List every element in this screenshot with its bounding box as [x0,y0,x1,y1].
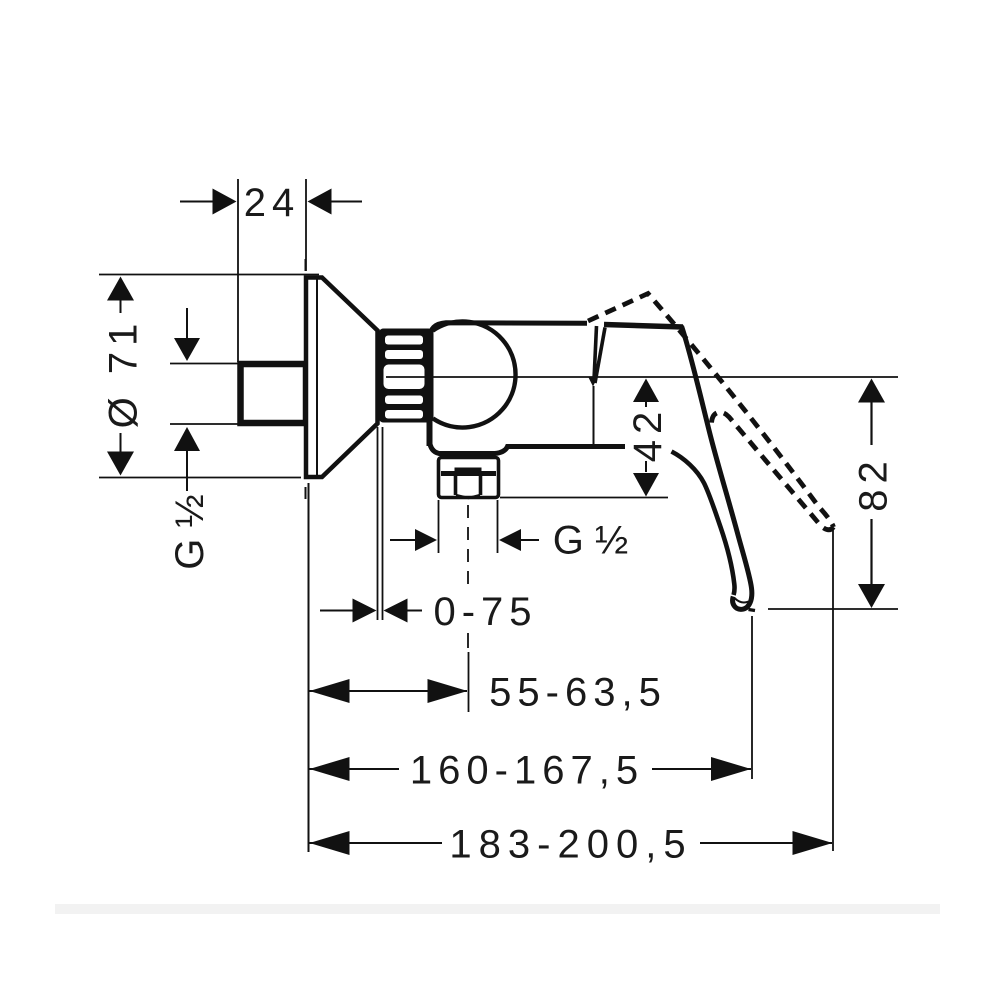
valve body left edge [427,330,433,446]
outlet nut bump [455,468,482,474]
dim Ø71: bottom extension line [99,477,301,479]
dim Ø71: arrows and shaft [107,277,134,301]
dim 160-167,5: extension line right (lever tip) [751,616,753,779]
lever outer edge [682,326,752,609]
skirt tip arrowhead [589,378,598,387]
outlet nut left facet [454,474,458,495]
dim Ø71: top extension line [99,274,319,276]
svg-text:183-200,5: 183-200,5 [449,823,692,867]
faint scan band [55,904,940,914]
centerline through nut [386,376,433,378]
dim 183-200,5: line + arrows [310,831,350,855]
svg-text:0-75: 0-75 [433,590,537,634]
stub top extension line [170,363,240,365]
dim 42: down arrow [645,461,647,472]
svg-text:82: 82 [852,455,896,512]
dim 183-200,5: extension line right (dashed tip) [832,530,834,851]
dim G1/2 stub: lower arrow [174,427,200,451]
svg-text:55-63,5: 55-63,5 [489,671,667,715]
svg-text:42: 42 [626,406,670,463]
escutcheon cone [306,278,378,478]
outlet G1/2 dim: line + arrows [390,539,415,541]
stub bottom extension line [170,423,240,425]
knurled nut [379,329,434,423]
handle skirt left edge (double line V) [594,326,597,380]
dim 160-167,5: line + arrows [310,757,350,781]
lever tip highlight [735,599,749,603]
left long extension line [308,483,310,852]
outlet nut band [441,471,496,476]
dim G1/2 stub: upper arrow [186,308,188,339]
lever inner edge [672,452,735,596]
svg-text:24: 24 [244,181,301,225]
outlet centerline dash-dot [467,505,469,590]
dim 24: extension line left [237,179,239,362]
svg-text:160-167,5: 160-167,5 [410,749,644,793]
lever tip nub [749,610,756,611]
outlet nut right facet [479,474,483,495]
dim 82: down arrow [870,519,872,584]
dim 42: up arrow [633,379,659,403]
dim 82: bottom reference line [768,608,898,610]
line under body arm (42 reference) [500,497,668,499]
wall plane dash bottom [305,487,307,499]
cartridge dome circle [433,322,516,428]
dim 0-75: double extension lines [377,427,379,620]
dashed raised lever lower edge [711,412,833,530]
svg-text:Ø 71: Ø 71 [102,318,146,429]
handle skirt top edge [604,325,683,328]
svg-text:G ½: G ½ [553,519,629,563]
wall stub (supply connection) [241,364,307,423]
main horizontal centerline [386,376,898,378]
wall plane dash top [305,259,307,271]
dashed raised lever upper edge [588,294,834,528]
dim 55-63,5: line + arrows [310,679,350,703]
escutcheon front face line [316,279,318,476]
outlet G1/2 dim: extension lines [438,500,440,553]
dim 0-75: line + arrows [320,610,353,612]
body bottom with step [430,441,626,454]
valve body top edge [430,323,587,338]
dim 24: line + arrows [180,201,213,203]
svg-text:G ½: G ½ [168,494,212,570]
dim 24: extension line right [305,179,307,271]
outlet nut bottom chevron [456,495,480,498]
outlet port box [439,458,499,498]
hidden body right edge [593,386,595,445]
dim 82: up arrow [858,379,885,403]
